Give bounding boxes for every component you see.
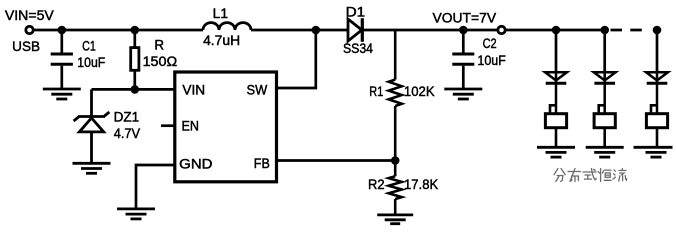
node LED branch 3 [653, 26, 662, 35]
svg-text:VIN=5V: VIN=5V [5, 8, 54, 23]
svg-text:C2: C2 [483, 36, 497, 51]
node SW junction [312, 26, 321, 35]
ground (C1) [43, 89, 81, 99]
ground (branch 1) [537, 147, 575, 157]
LED D-branch1 [545, 72, 567, 113]
svg-text:17.8K: 17.8K [404, 177, 438, 192]
resistor R (box) [131, 30, 139, 89]
LED branch 2 wire [603, 30, 606, 72]
svg-text:D1: D1 [346, 5, 366, 20]
wire node to IC VIN pin [135, 88, 175, 91]
svg-text:150Ω: 150Ω [143, 54, 178, 69]
svg-text:EN: EN [182, 118, 200, 133]
wire SW pin to rail [277, 30, 316, 88]
wire DZ1 to node [92, 88, 135, 91]
ground (C2) [444, 89, 482, 99]
node C1 junction [58, 26, 67, 35]
svg-text:USB: USB [12, 39, 40, 54]
node FB divider junction [391, 156, 400, 165]
ground (branch 2) [586, 147, 624, 157]
ground (GND pin) [117, 209, 155, 219]
diode D1 [348, 18, 362, 42]
svg-text:R2: R2 [368, 177, 385, 192]
capacitor C1 [51, 30, 73, 89]
terminal VOUT [498, 26, 505, 33]
svg-text:10uF: 10uF [477, 53, 506, 68]
LED D-branch2 [594, 72, 616, 113]
svg-text:GND: GND [179, 156, 213, 171]
svg-text:DZ1: DZ1 [114, 110, 140, 125]
node LED branch 1 [552, 26, 561, 35]
node VIN junction [131, 85, 140, 94]
svg-text:102K: 102K [404, 84, 435, 99]
wire rail L1 to D1 [251, 29, 348, 32]
inductor L1 [203, 23, 251, 30]
constant-current device box 3 [646, 105, 667, 147]
terminal USB input [26, 26, 33, 33]
capacitor C2 [452, 30, 474, 89]
label distributed constant current (CJK, drawn as paths) [554, 169, 627, 182]
svg-text:SW: SW [247, 83, 268, 98]
svg-text:L1: L1 [213, 6, 229, 21]
svg-text:VIN: VIN [182, 83, 205, 98]
resistor R2 (zigzag) [389, 161, 402, 215]
ground (DZ1) [73, 163, 111, 173]
node LED branch 2 [600, 26, 609, 35]
LED D-branch3 [646, 72, 668, 113]
svg-text:10uF: 10uF [77, 55, 105, 70]
node VOUT junction [459, 26, 468, 35]
wire dashed rail [611, 29, 643, 32]
svg-text:R: R [154, 38, 164, 53]
svg-text:VOUT=7V: VOUT=7V [433, 10, 497, 25]
svg-text:4.7V: 4.7V [114, 126, 140, 141]
wire GND pin to ground [136, 165, 175, 209]
svg-text:R1: R1 [369, 84, 383, 99]
ground (branch 3) [634, 147, 673, 157]
node R top junction [131, 26, 140, 35]
zener diode DZ1 [74, 89, 110, 163]
svg-text:SS34: SS34 [343, 41, 373, 56]
LED branch 3 wire [656, 30, 659, 72]
LED branch 1 wire [555, 30, 558, 72]
pin EN stub [161, 124, 175, 127]
constant-current device box 2 [594, 105, 615, 147]
constant-current device box 1 [545, 105, 566, 147]
ground (R2) [377, 215, 413, 224]
svg-text:4.7uH: 4.7uH [203, 33, 240, 48]
wire FB pin to divider node [277, 159, 396, 162]
wire rail D1 to VOUT terminal [362, 29, 497, 32]
svg-text:C1: C1 [82, 39, 96, 54]
svg-text:FB: FB [254, 156, 270, 171]
wire top rail USB to L1 [34, 29, 203, 32]
resistor R1 (zigzag) [389, 30, 402, 161]
wire rail VOUT to LED branches [506, 29, 607, 32]
IC U1 box [175, 72, 277, 182]
